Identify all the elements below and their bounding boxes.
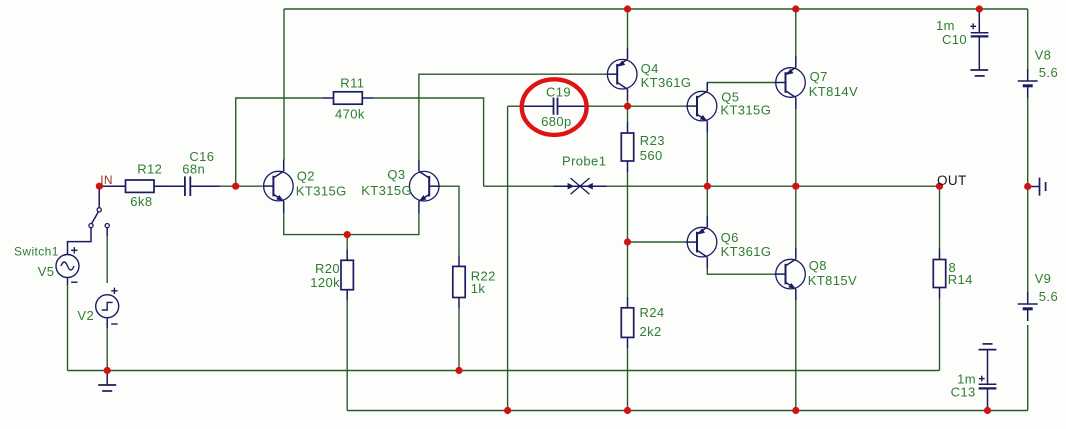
- svg-text:KT315G: KT315G: [720, 103, 771, 118]
- svg-text:V5: V5: [38, 264, 55, 279]
- wire R14 bottom to ground rail: [939, 299, 941, 371]
- svg-text:KT814V: KT814V: [809, 84, 858, 99]
- wire C19 left leg to negative rail: [508, 105, 523, 107]
- svg-text:KT361G: KT361G: [721, 244, 772, 259]
- battery V8: [1018, 48, 1058, 99]
- resistor R22: [453, 255, 465, 308]
- transistor Q5: [686, 83, 717, 133]
- svg-text:IN: IN: [100, 173, 113, 187]
- node Q8 emitter negative rail junction: [792, 407, 799, 414]
- node Q5 Q6 emitter output junction: [704, 183, 711, 190]
- svg-text:Switch1: Switch1: [14, 244, 59, 258]
- svg-text:OUT: OUT: [937, 173, 967, 188]
- svg-text:560: 560: [640, 148, 663, 163]
- wire Q4 emitter to top rail: [627, 9, 629, 48]
- svg-text:KT815V: KT815V: [808, 273, 857, 288]
- resistor R23: [621, 122, 633, 172]
- svg-text:C13: C13: [951, 385, 976, 400]
- wire Q2 base node to base: [236, 185, 262, 187]
- svg-text:Q6: Q6: [721, 230, 739, 245]
- ground above C13: [979, 344, 997, 350]
- wire V8 to V9 through ground tap: [1027, 98, 1029, 292]
- wire Q7 collector to output rail: [795, 109, 797, 186]
- svg-text:2k2: 2k2: [640, 324, 662, 339]
- wire Q7 emitter to top rail: [795, 9, 797, 56]
- resistor R12: [115, 180, 166, 192]
- wire R22 bottom to ground rail: [458, 309, 460, 371]
- svg-text:120k: 120k: [310, 275, 340, 290]
- node R23 R24 junction: [624, 238, 631, 245]
- node Q4 collector junction: [624, 103, 631, 110]
- wire bottom negative rail: [347, 410, 1027, 412]
- wire V9 to bottom rail: [1027, 325, 1029, 411]
- resistor R14: [933, 249, 945, 299]
- node Q7 emitter top rail junction: [792, 5, 799, 12]
- svg-text:6k8: 6k8: [130, 194, 152, 209]
- transistor Q4: [606, 48, 637, 101]
- capacitor C13: [979, 350, 997, 408]
- resistor R24: [621, 297, 633, 349]
- node Q4 emitter top rail junction: [624, 5, 631, 12]
- wire Q4 collector to C19 node: [627, 101, 629, 107]
- capacitor C16: [156, 176, 220, 196]
- probe Probe1: [554, 178, 607, 194]
- wire Q8 emitter to negative rail: [795, 301, 797, 411]
- svg-text:Q3: Q3: [387, 167, 405, 182]
- svg-text:5.6: 5.6: [1039, 289, 1058, 304]
- wire R11 right leg to output: [373, 98, 483, 186]
- node OUT junction: [936, 183, 943, 190]
- svg-text:Q7: Q7: [810, 69, 828, 84]
- wire R20 top to emitter rail: [346, 235, 348, 250]
- resistor R20: [341, 249, 353, 300]
- svg-text:R12: R12: [137, 161, 162, 176]
- svg-text:V8: V8: [1035, 48, 1052, 63]
- node IN junction: [96, 183, 103, 190]
- transistor Q3: [409, 160, 440, 213]
- wire Q3 collector to Q4 base: [419, 74, 606, 160]
- switch Switch1: [68, 189, 110, 255]
- wire R24 bottom to negative rail: [627, 348, 629, 410]
- wire R20 bottom to negative rail: [346, 301, 348, 411]
- node R22 ground junction: [455, 367, 462, 374]
- transistor Q6: [686, 216, 717, 269]
- svg-text:R24: R24: [640, 305, 665, 320]
- svg-text:KT361G: KT361G: [641, 75, 692, 90]
- wire R11 feedback left leg: [236, 98, 323, 186]
- wire Q5 collector to Q7 base: [707, 83, 774, 92]
- wire Q6 base wire: [628, 241, 687, 243]
- node emitter rail junction: [344, 231, 351, 238]
- wire Q6 collector to Q8 base: [707, 269, 774, 275]
- svg-text:R14: R14: [948, 272, 973, 287]
- node C19 negative rail junction: [504, 407, 511, 414]
- svg-text:C10: C10: [942, 32, 967, 47]
- wire V2 bottom to ground node: [106, 328, 108, 371]
- wire ground rail: [68, 370, 940, 372]
- wire output rail: [484, 185, 554, 187]
- svg-text:470k: 470k: [335, 106, 365, 121]
- svg-text:R11: R11: [340, 75, 364, 90]
- resistor R11: [323, 92, 374, 104]
- svg-text:Probe1: Probe1: [562, 153, 606, 168]
- capacitor C10: [970, 12, 988, 70]
- svg-text:KT315G: KT315G: [296, 184, 347, 199]
- wire C19 vertical drop: [507, 106, 509, 410]
- wire V8 top lead: [1027, 9, 1029, 69]
- wire Q8 collector to output rail: [795, 186, 797, 247]
- wire Q2 emitter to emitter rail: [284, 212, 419, 235]
- wire R23 bottom to Q6 base node: [627, 172, 629, 242]
- ground right mid: [1031, 178, 1046, 196]
- node ground junction: [104, 367, 111, 374]
- svg-text:KT315G: KT315G: [361, 183, 412, 198]
- wire input node to R12: [102, 185, 126, 187]
- wire V5 bottom to ground rail: [67, 285, 69, 371]
- node Q7 Q8 collector output junction: [792, 183, 799, 190]
- wire Q6 base node to R24: [627, 242, 629, 297]
- wire Q6 emitter to output rail: [706, 186, 708, 215]
- svg-text:1k: 1k: [471, 281, 486, 296]
- wire C16 to Q2 base node: [218, 185, 236, 187]
- source V5: [56, 247, 79, 285]
- svg-text:C19: C19: [546, 85, 571, 100]
- highlight red circle around C19: [522, 79, 587, 135]
- svg-text:1m: 1m: [936, 18, 955, 33]
- capacitor C19: [524, 98, 588, 115]
- svg-text:R23: R23: [640, 133, 665, 148]
- wire V2 top lead: [106, 236, 108, 283]
- battery V9: [1018, 271, 1058, 321]
- node Q2 base junction: [232, 183, 239, 190]
- wire output node to R14: [939, 186, 941, 248]
- svg-text:68n: 68n: [182, 162, 205, 177]
- source V2: [96, 288, 119, 328]
- ground: [98, 373, 116, 391]
- svg-text:5.6: 5.6: [1039, 65, 1058, 80]
- node V8 V9 ground junction: [1024, 183, 1031, 190]
- wire top positive rail: [284, 8, 1028, 10]
- wire Q2 collector to top rail: [283, 9, 285, 160]
- svg-text:Q8: Q8: [809, 258, 827, 273]
- svg-text:Q2: Q2: [297, 169, 315, 184]
- svg-text:R20: R20: [315, 261, 340, 276]
- node R24 negative rail junction: [624, 407, 631, 414]
- node C10 top rail junction: [976, 5, 983, 12]
- node C13 negative rail junction: [984, 407, 991, 414]
- svg-text:Q4: Q4: [641, 61, 659, 76]
- transistor Q7: [775, 56, 806, 109]
- svg-text:V2: V2: [77, 308, 94, 323]
- wire Q3 base to R22: [436, 186, 460, 255]
- wire C19 node to Q5 base: [628, 105, 687, 107]
- svg-text:V9: V9: [1035, 271, 1052, 286]
- transistor Q2: [262, 160, 293, 213]
- wire Q5 emitter to output rail: [706, 133, 708, 187]
- ground below C10: [970, 70, 988, 76]
- transistor Q8: [775, 248, 806, 301]
- wire C19 right lead to node: [587, 105, 628, 107]
- svg-text:680p: 680p: [541, 114, 572, 129]
- wire R23 top: [627, 106, 629, 122]
- wire output rail right of probe: [607, 185, 940, 187]
